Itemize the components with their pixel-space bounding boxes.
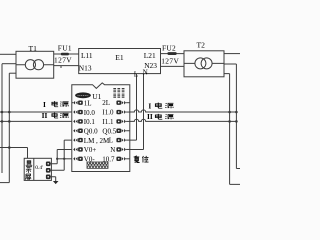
bus II power, left segment xyxy=(0,120,72,122)
wire: T1 lower-left to drop x=9.3 xyxy=(9,72,16,74)
svg-text:127V: 127V xyxy=(161,57,179,66)
wire: T1 to E1 (N13) xyxy=(54,66,79,68)
bus I power, left segment xyxy=(0,111,72,113)
U1 pin L xyxy=(116,138,129,142)
svg-text:II: II xyxy=(42,111,48,120)
label I power right xyxy=(148,101,173,110)
U1 pin 1L xyxy=(72,101,83,105)
fuse FU1 xyxy=(61,53,69,56)
svg-text:I: I xyxy=(43,100,46,109)
rotated type text block xyxy=(115,88,123,98)
svg-text:127V: 127V xyxy=(54,56,72,65)
wire: E1 bottom pin L down to U1 right pin L xyxy=(130,74,137,141)
svg-text:L21: L21 xyxy=(144,51,156,60)
svg-text:I: I xyxy=(148,101,151,110)
svg-text:0.4′: 0.4′ xyxy=(35,165,43,171)
U1 pin I1.1 xyxy=(116,119,129,123)
svg-text:I1.1: I1.1 xyxy=(102,118,114,126)
block E1 xyxy=(79,49,161,74)
junction dots xyxy=(1,111,238,160)
svg-text:N: N xyxy=(110,146,115,154)
U1 pin V0- xyxy=(73,157,83,161)
svg-text:I1.0: I1.0 xyxy=(102,109,114,117)
label display screen xyxy=(25,161,32,180)
transformer T1 xyxy=(16,51,54,78)
PLC block U1 outline with break mark xyxy=(72,83,130,172)
U1 pin V0+ xyxy=(73,147,83,151)
U1 pin Q0.5 xyxy=(116,129,129,133)
display pin 1 xyxy=(46,162,51,167)
svg-text:FU1: FU1 xyxy=(58,44,72,53)
svg-text:V0+: V0+ xyxy=(84,146,97,154)
wire: E1 bottom pin N down to U1 right pin N xyxy=(130,74,144,150)
label II power left xyxy=(42,111,69,120)
svg-text:2L: 2L xyxy=(102,99,110,107)
wire: left feeder to display top xyxy=(0,148,28,159)
ground xyxy=(53,181,59,184)
wire: T1 to FU1 to E1 (L11) xyxy=(54,53,79,55)
U1 pin 2L xyxy=(116,101,129,105)
fuse FU2 xyxy=(167,52,176,55)
svg-text:LM , 2M: LM , 2M xyxy=(84,137,110,145)
label I power left xyxy=(43,100,69,109)
wire: T2 right lower, drop at x=229.6 xyxy=(224,74,240,185)
display pin 3 xyxy=(46,175,51,180)
wire: vertical drop x=2 xyxy=(1,64,3,173)
wire: display pin3 to ground xyxy=(51,177,56,181)
display box xyxy=(24,158,51,180)
U1 pin I1.0 xyxy=(116,110,129,114)
svg-text:FU2: FU2 xyxy=(162,43,176,52)
label II power right xyxy=(147,112,173,121)
svg-text:N: N xyxy=(143,69,149,77)
U1 pin Q0.0 xyxy=(73,129,83,133)
svg-text:Q0.5: Q0.5 xyxy=(102,127,116,135)
logo oval U1 xyxy=(75,92,91,98)
U1 pin I0.1 xyxy=(73,119,83,123)
svg-text:N13: N13 xyxy=(79,64,92,73)
wire: left supply into T1 top xyxy=(0,53,16,55)
svg-text:L: L xyxy=(134,70,138,78)
wire: T1 middle-left to left drop xyxy=(2,63,16,65)
wire: E1 to FU2 to T2 (L21) xyxy=(161,53,185,55)
U1 pin LM,2M xyxy=(73,138,83,142)
wire: E1 to T2 (N23) xyxy=(161,65,185,67)
U1 pin N xyxy=(116,147,129,151)
wire: U1 V0- pin xyxy=(57,158,72,160)
svg-text:Q0.0: Q0.0 xyxy=(84,127,98,135)
svg-text:U1: U1 xyxy=(92,92,101,101)
wire: vertical drop x=9.3 xyxy=(8,73,10,182)
wire: bottom-left exit xyxy=(0,182,9,184)
display pin 2 xyxy=(46,168,51,173)
wire: T2 right to image edge xyxy=(224,53,240,55)
label reset xyxy=(134,156,149,163)
svg-text:1L: 1L xyxy=(84,99,92,107)
svg-text:I0.1: I0.1 xyxy=(84,118,96,126)
U1 pin 10.7 xyxy=(116,157,129,161)
svg-text:L: L xyxy=(109,137,113,145)
connector block at U1 bottom xyxy=(87,162,108,168)
svg-text:T2: T2 xyxy=(197,41,206,50)
svg-text:I0.0: I0.0 xyxy=(84,109,96,117)
transformer T2 xyxy=(184,51,224,77)
svg-text:E1: E1 xyxy=(115,53,124,62)
svg-text:L11: L11 xyxy=(81,51,93,60)
wire: T2 right middle, drop at x=236.4 xyxy=(224,64,240,169)
bus I power, right segment with hops xyxy=(130,110,237,112)
svg-text:II: II xyxy=(147,112,153,121)
wire: U1 LM,2M pin to display pin2 xyxy=(51,140,72,170)
wire: U1 V0+ pin to display pin1 xyxy=(51,149,72,163)
svg-text:T1: T1 xyxy=(29,44,38,53)
U1 pin I0.0 xyxy=(73,110,83,114)
bus II power, right segment with hops xyxy=(130,119,237,121)
